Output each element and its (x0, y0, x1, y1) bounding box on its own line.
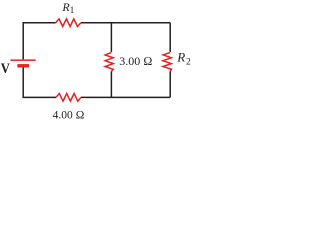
svg-text:4.00 Ω: 4.00 Ω (53, 110, 85, 122)
resistor 4.00 ohm zigzag (56, 94, 81, 102)
wire: middle branch lower stub (110, 71, 112, 97)
wire: top segment from R1 to top-right corner (81, 22, 170, 24)
battery V: top plate (long) (11, 59, 36, 61)
wire: bottom-right segment (81, 96, 170, 98)
resistor 3.00 ohm zigzag (105, 52, 113, 71)
wire: middle branch upper stub (110, 23, 112, 52)
wire: bottom-left segment (23, 68, 56, 98)
battery V: bottom plate (short thick) (17, 64, 29, 67)
svg-text:R1: R1 (61, 0, 74, 15)
wire: right side lower stub (169, 71, 171, 97)
svg-text:3.00 Ω: 3.00 Ω (119, 54, 152, 68)
svg-text:R2: R2 (176, 49, 191, 67)
resistor R1 zigzag (56, 19, 81, 27)
resistor R2 zigzag (163, 52, 172, 71)
svg-text:V: V (1, 61, 10, 77)
wire: top-left segment from battery top to R1 (23, 23, 56, 60)
wire: right side upper stub (169, 23, 171, 52)
